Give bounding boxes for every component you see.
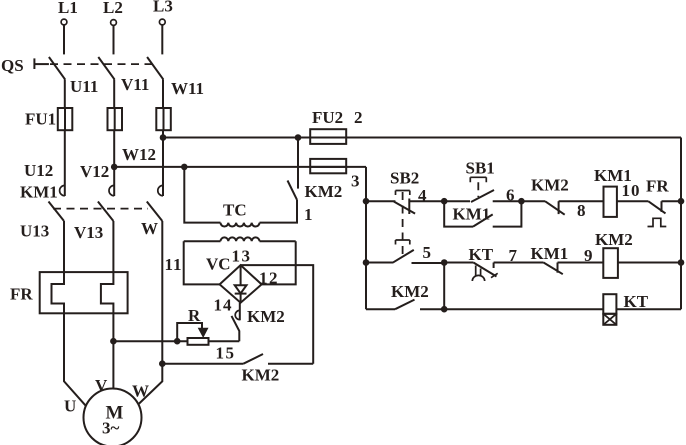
svg-text:U: U [64, 397, 76, 416]
svg-text:2: 2 [354, 108, 363, 127]
junction node5 [441, 259, 448, 266]
svg-text:L2: L2 [103, 0, 123, 17]
wire bus W12 to FU2 to right rail [163, 137, 681, 139]
wire V to motor [112, 313, 114, 388]
svg-text:W12: W12 [122, 145, 156, 164]
contact KM2 NC (8) [521, 176, 603, 221]
svg-text:TC: TC [223, 201, 247, 220]
svg-text:KM1: KM1 [531, 244, 569, 263]
wire V11 [113, 79, 115, 108]
svg-text:3: 3 [351, 172, 360, 191]
svg-text:W: W [141, 219, 158, 238]
junction row2 right [678, 259, 685, 266]
svg-text:FR: FR [646, 177, 669, 196]
contact KM1 self-lock [444, 201, 521, 226]
junction node6 [518, 198, 525, 205]
svg-text:V12: V12 [80, 162, 109, 181]
svg-text:8: 8 [577, 201, 586, 220]
wire U13 [63, 221, 65, 272]
contactor KM1 main contacts [20, 183, 163, 222]
svg-text:9: 9 [584, 246, 593, 265]
svg-text:KM1: KM1 [453, 205, 491, 224]
pushbutton SB1 NO [444, 159, 521, 203]
wire V13 [112, 221, 114, 272]
junction V-R wire [110, 338, 117, 345]
wire L2 drop [113, 26, 115, 55]
svg-text:13: 13 [232, 247, 252, 266]
contact KM1 NC (9) [531, 244, 604, 274]
contact KM2-1 [288, 138, 343, 225]
junction TC tap [181, 164, 188, 171]
wire row1 start [366, 200, 395, 202]
svg-text:11: 11 [165, 255, 183, 274]
svg-text:10: 10 [622, 181, 641, 200]
wire U11 [64, 79, 66, 108]
contact KM2 NO (row3) [366, 282, 444, 309]
right control rail [680, 138, 682, 310]
wire row2 start [366, 262, 394, 264]
svg-text:12: 12 [259, 269, 279, 288]
wire W (node 11) [161, 221, 163, 364]
resistor R [113, 306, 239, 345]
svg-text:1: 1 [304, 205, 313, 224]
svg-text:VC: VC [206, 255, 231, 274]
svg-text:15: 15 [216, 344, 236, 363]
wire node5 down [443, 263, 445, 310]
terminal L2 [103, 0, 123, 25]
coil KM1 [594, 166, 641, 217]
svg-text:L3: L3 [153, 0, 173, 16]
switch QS [1, 56, 163, 79]
left control rail [365, 167, 367, 309]
svg-text:14: 14 [214, 296, 233, 315]
svg-text:KM2: KM2 [595, 230, 633, 249]
transformer TC primary [184, 167, 297, 227]
contact KM2 (15) [162, 344, 313, 385]
contact FR NC [617, 177, 681, 227]
wire node 13 to braking contact [241, 265, 314, 364]
svg-text:SB1: SB1 [466, 159, 495, 178]
svg-text:FU1: FU1 [25, 110, 56, 129]
svg-text:U11: U11 [70, 77, 98, 96]
coil KM2 [595, 230, 681, 278]
row 2: junction left rail [363, 259, 370, 266]
contact KM2 (14) [232, 303, 285, 342]
fuse FU2 [310, 108, 362, 191]
terminal L1 [58, 0, 78, 25]
junction node4 [441, 198, 448, 205]
svg-text:FR: FR [10, 285, 33, 304]
wire KT to right rail [616, 308, 681, 310]
svg-text:KM2: KM2 [242, 366, 280, 385]
junction KM2-1 tap [295, 134, 302, 141]
fuse FU1 [25, 108, 171, 130]
thermal relay FR heaters [10, 272, 128, 313]
wire W to motor [138, 364, 162, 405]
wire row3 to KT [444, 308, 603, 310]
svg-text:KM2: KM2 [247, 307, 285, 326]
junction W braking [159, 360, 166, 367]
svg-text:SB2: SB2 [390, 169, 419, 188]
wire bus V12 to FU2 [114, 166, 366, 168]
svg-text:7: 7 [509, 246, 518, 265]
svg-text:V13: V13 [74, 223, 103, 242]
svg-text:L1: L1 [58, 0, 78, 17]
junction row1 right [678, 198, 685, 205]
wire U to motor [64, 313, 86, 405]
svg-text:U13: U13 [20, 222, 49, 241]
svg-text:KM2: KM2 [305, 182, 343, 201]
svg-text:KT: KT [469, 245, 494, 264]
contact KT NC delayed (7) [444, 245, 543, 281]
relay KT coil [603, 292, 648, 325]
svg-text:FU2: FU2 [312, 108, 343, 127]
transformer TC secondary [184, 237, 296, 284]
wire L1 drop [63, 25, 65, 54]
motor M [84, 389, 142, 445]
svg-text:KT: KT [624, 292, 649, 311]
svg-text:KM1: KM1 [20, 183, 58, 202]
row 1: junction left rail [363, 198, 370, 205]
svg-text:V11: V11 [121, 75, 149, 94]
terminal L3 [153, 0, 173, 25]
wire L3 drop [161, 25, 163, 54]
svg-text:U12: U12 [24, 161, 53, 180]
svg-text:KM2: KM2 [531, 176, 569, 195]
junction row3 [441, 306, 448, 313]
svg-text:QS: QS [1, 56, 24, 75]
pushbutton SB2 NC [390, 169, 444, 255]
svg-text:W11: W11 [171, 79, 204, 98]
junction W12 [160, 134, 167, 141]
junction V12 [111, 164, 118, 171]
svg-text:3~: 3~ [102, 419, 120, 438]
rectifier VC [206, 247, 279, 315]
svg-text:6: 6 [506, 186, 515, 205]
svg-text:4: 4 [418, 186, 427, 205]
wire W11 [162, 79, 164, 108]
wire U12 [64, 130, 66, 183]
svg-text:KM2: KM2 [391, 282, 429, 301]
pushbutton SB2 NO (5) [393, 243, 444, 263]
wire V12 [113, 130, 115, 183]
svg-text:5: 5 [423, 243, 432, 262]
wire W12 [162, 130, 164, 183]
